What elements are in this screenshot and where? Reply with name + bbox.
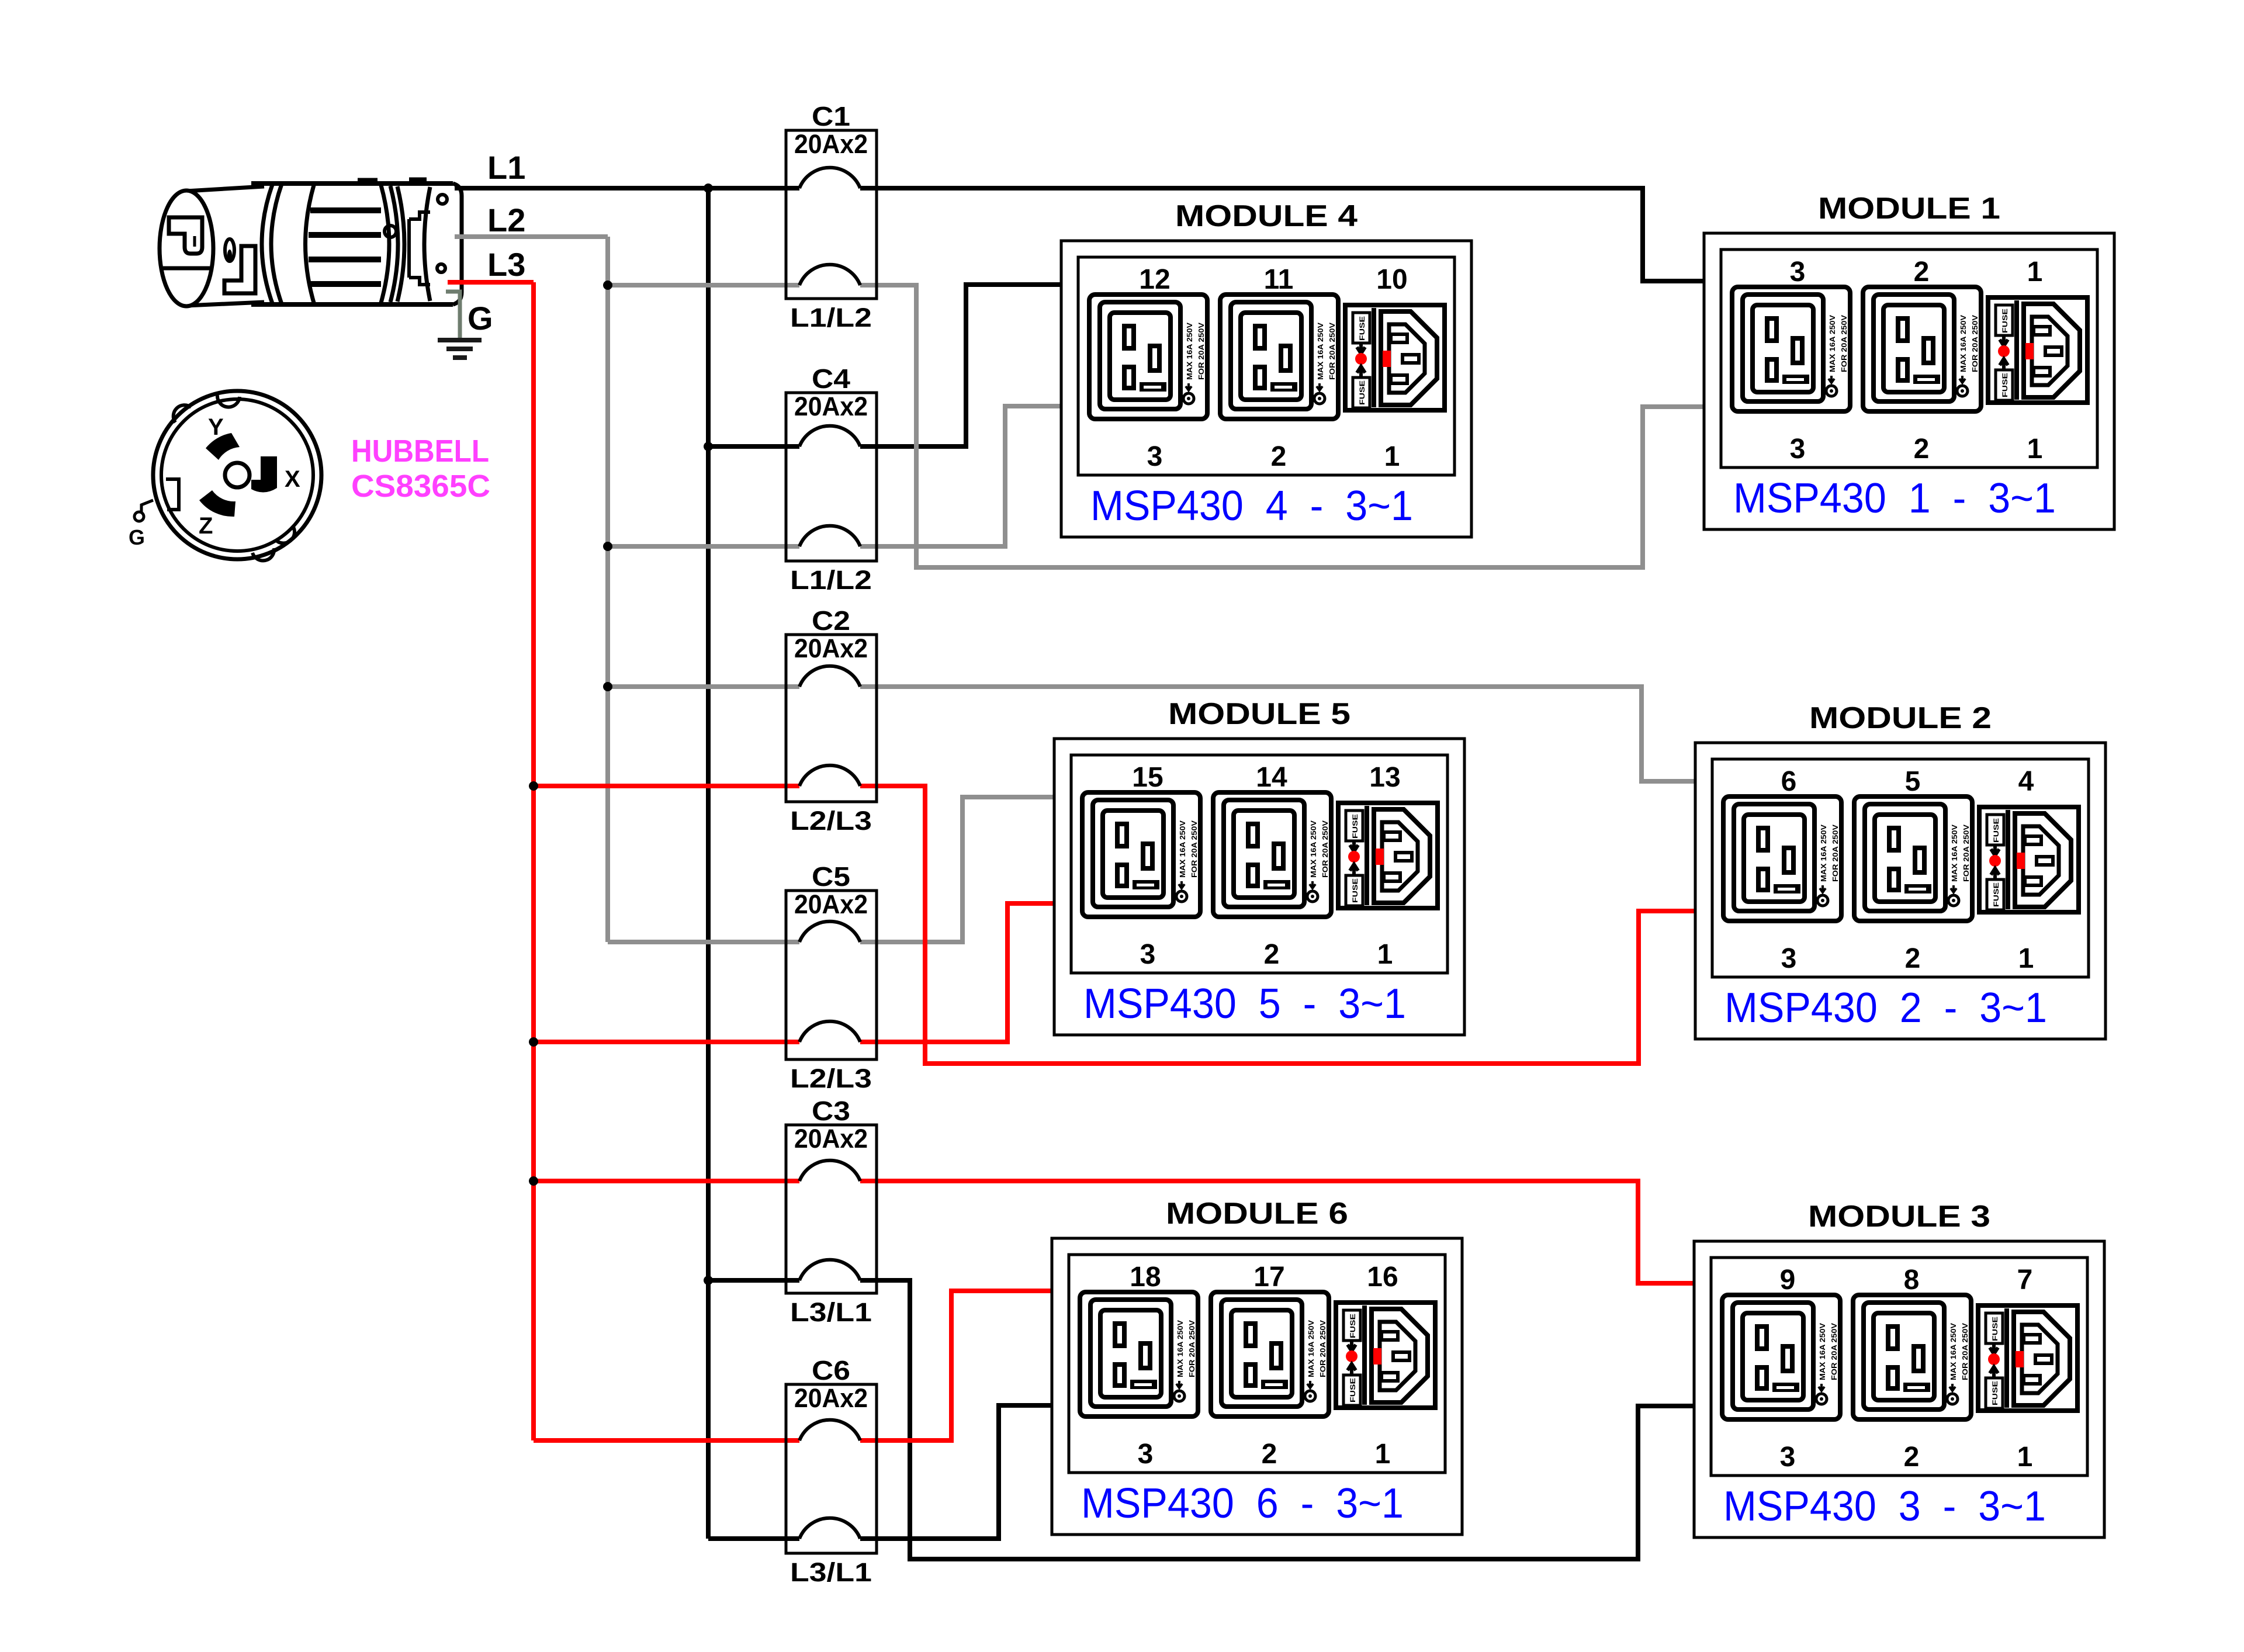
wire L3 bus tap to breaker C5	[534, 1040, 799, 1044]
svg-text:3: 3	[1138, 1439, 1154, 1470]
wire breaker C5 output to MODULE 5 (L3)	[860, 903, 1054, 1042]
svg-text:C4: C4	[812, 363, 850, 394]
wire breaker C4 output to MODULE 4	[860, 285, 1061, 446]
module MODULE 2 enclosure with outlets 6/5 (C19) and inlet 4 (C14+fuse)	[1695, 743, 2106, 1039]
module MODULE 3 enclosure with outlets 9/8 (C19) and inlet 7 (C14+fuse)	[1694, 1241, 2104, 1537]
svg-text:MODULE 4: MODULE 4	[1175, 199, 1358, 233]
svg-text:12: 12	[1139, 264, 1170, 295]
breaker C5 body	[786, 891, 877, 1059]
svg-text:L3/L1: L3/L1	[790, 1557, 872, 1587]
wire L3 bus tap to breaker C3	[534, 1179, 799, 1183]
svg-text:7: 7	[2017, 1265, 2033, 1296]
breaker C2 (2-pole 20A, L2/L3)	[786, 605, 877, 836]
junction L3/C5	[529, 1037, 538, 1047]
breaker C4 pole 1 arc	[799, 426, 860, 446]
breaker C1 body	[786, 130, 877, 299]
junction L2/C4	[603, 542, 612, 551]
module MODULE 2 (MSP430 2 outlet bank)	[1695, 701, 2106, 1039]
svg-text:MSP430 4 - 3~1: MSP430 4 - 3~1	[1090, 483, 1413, 529]
module MODULE 6 (MSP430 6 outlet bank)	[1052, 1197, 1462, 1535]
svg-text:16: 16	[1367, 1262, 1398, 1293]
breaker C6 pole 2 arc	[799, 1518, 860, 1539]
svg-text:3: 3	[1790, 257, 1806, 288]
connector J1: face view (NEMA blades)	[134, 391, 321, 560]
svg-text:C2: C2	[812, 605, 850, 636]
module MODULE 1 enclosure with outlets 3/2 (C19) and inlet 1 (C14+fuse)	[1704, 233, 2114, 529]
svg-text:1: 1	[2027, 434, 2043, 465]
svg-text:20Ax2: 20Ax2	[794, 1124, 868, 1154]
svg-text:1: 1	[2018, 943, 2034, 974]
svg-text:L2/L3: L2/L3	[790, 1064, 872, 1093]
breaker C6 body	[786, 1384, 877, 1553]
svg-text:3: 3	[1147, 441, 1163, 472]
breaker C2 pole 2 arc	[799, 766, 860, 786]
breaker C2 body	[786, 635, 877, 802]
svg-text:L1: L1	[487, 149, 525, 186]
breaker C4 pole 2 arc	[799, 526, 860, 546]
junction L1/C1	[704, 183, 713, 193]
svg-text:CS8365C: CS8365C	[351, 469, 490, 504]
svg-text:MSP430 5 - 3~1: MSP430 5 - 3~1	[1083, 981, 1406, 1027]
breaker C3 body	[786, 1125, 877, 1293]
wire L1 from plug to breaker C1	[455, 186, 799, 191]
svg-text:MSP430 1 - 3~1: MSP430 1 - 3~1	[1733, 475, 2056, 522]
svg-text:20Ax2: 20Ax2	[794, 633, 868, 663]
svg-text:G: G	[467, 300, 493, 337]
svg-text:1: 1	[1377, 939, 1393, 970]
svg-text:L3: L3	[487, 246, 525, 283]
breaker C5 pole 1 arc	[799, 922, 860, 942]
svg-text:MODULE 5: MODULE 5	[1168, 697, 1350, 731]
wire breaker C6 output to MODULE 6	[860, 1405, 1052, 1539]
ground symbol	[438, 340, 482, 358]
wire L2 bus tap to breaker C5	[608, 940, 799, 944]
wire L3 bus tap to breaker C2	[534, 784, 799, 788]
svg-text:1: 1	[2027, 257, 2043, 288]
svg-text:10: 10	[1376, 264, 1407, 295]
svg-text:11: 11	[1264, 264, 1294, 295]
wire L2 from plug to bus	[455, 234, 608, 239]
wire breaker C1 output to MODULE 1	[860, 188, 1704, 281]
wire L1 bus tap to breaker C3	[708, 1278, 799, 1283]
wire L3 bus tap to breaker C6	[534, 1438, 799, 1443]
module MODULE 1 (MSP430 1 outlet bank)	[1704, 192, 2114, 529]
svg-text:Z: Z	[199, 513, 213, 539]
svg-text:1: 1	[1384, 441, 1400, 472]
junction L2/C2	[603, 682, 612, 691]
svg-text:L1/L2: L1/L2	[790, 303, 872, 333]
svg-text:9: 9	[1780, 1265, 1796, 1296]
junction L3/C3	[529, 1176, 538, 1186]
connector J1: Hubbell CS8365C plug, side view	[160, 180, 462, 306]
label HUBBELL CS8365C	[351, 434, 490, 504]
breaker C4 (2-pole 20A, L1/L2)	[786, 363, 877, 595]
wire L3 bus (vertical)	[531, 282, 536, 1440]
wire L3 from plug to bus	[448, 280, 534, 285]
svg-text:8: 8	[1904, 1265, 1920, 1296]
svg-text:HUBBELL: HUBBELL	[351, 434, 489, 469]
wire breaker C2 output to MODULE 2 (L2)	[860, 687, 1695, 781]
module MODULE 4 (MSP430 4 outlet bank)	[1061, 199, 1471, 537]
svg-text:1: 1	[2017, 1442, 2033, 1473]
breaker C3 pole 2 arc	[799, 1260, 860, 1280]
wire L1 bus tap to breaker C6	[708, 1536, 799, 1541]
breaker C6 pole 1 arc	[799, 1420, 860, 1440]
breaker C1 pole 2 arc	[799, 265, 860, 285]
svg-text:MODULE 1: MODULE 1	[1818, 192, 2000, 226]
wire breaker C3 output to MODULE 3	[860, 1280, 1694, 1559]
svg-text:3: 3	[1780, 1442, 1796, 1473]
svg-text:C6: C6	[812, 1355, 850, 1386]
svg-text:2: 2	[1904, 1442, 1920, 1473]
breaker C5 pole 2 arc	[799, 1021, 860, 1042]
module MODULE 5 (MSP430 5 outlet bank)	[1054, 697, 1464, 1035]
svg-text:13: 13	[1369, 762, 1400, 793]
svg-text:18: 18	[1130, 1262, 1161, 1293]
svg-text:2: 2	[1262, 1439, 1277, 1470]
svg-text:MODULE 2: MODULE 2	[1809, 701, 1992, 735]
svg-text:3: 3	[1790, 434, 1806, 465]
svg-text:2: 2	[1271, 441, 1287, 472]
svg-text:L1/L2: L1/L2	[790, 565, 872, 595]
module MODULE 3 (MSP430 3 outlet bank)	[1694, 1200, 2104, 1537]
svg-text:MSP430 6 - 3~1: MSP430 6 - 3~1	[1081, 1480, 1404, 1527]
svg-text:2: 2	[1264, 939, 1280, 970]
svg-text:MSP430 2 - 3~1: MSP430 2 - 3~1	[1724, 985, 2047, 1031]
wire breaker C3 output to MODULE 3 (L3)	[860, 1181, 1694, 1283]
svg-text:L3/L1: L3/L1	[790, 1297, 872, 1327]
svg-text:4: 4	[2018, 766, 2034, 797]
breaker C4 body	[786, 393, 877, 561]
wire breaker C1 output to MODULE 1 (L2)	[860, 285, 1704, 567]
svg-text:MODULE 6: MODULE 6	[1166, 1197, 1348, 1231]
wire breaker C6 output to MODULE 6 (L3)	[860, 1291, 1052, 1440]
svg-text:2: 2	[1914, 434, 1930, 465]
wire L2 bus tap to breaker C2	[608, 684, 799, 689]
svg-text:20Ax2: 20Ax2	[794, 1383, 868, 1413]
svg-text:17: 17	[1253, 1262, 1284, 1293]
svg-text:X: X	[285, 466, 300, 492]
svg-text:MODULE 3: MODULE 3	[1808, 1200, 1990, 1234]
module MODULE 6 enclosure with outlets 18/17 (C19) and inlet 16 (C14+fuse)	[1052, 1238, 1462, 1535]
module MODULE 5 enclosure with outlets 15/14 (C19) and inlet 13 (C14+fuse)	[1054, 739, 1464, 1035]
junction L3/C2	[529, 781, 538, 791]
svg-text:Y: Y	[208, 414, 224, 440]
junction L1/C3	[704, 1276, 713, 1285]
wire breaker C4 output to MODULE 4 (L2)	[860, 406, 1061, 546]
module MODULE 4 enclosure with outlets 12/11 (C19) and inlet 10 (C14+fuse)	[1061, 241, 1471, 537]
svg-text:20Ax2: 20Ax2	[794, 392, 868, 421]
wire L2 bus (vertical)	[605, 237, 610, 942]
wire G from plug to ground	[446, 292, 460, 339]
breaker C3 pole 1 arc	[799, 1161, 860, 1181]
svg-text:G: G	[129, 525, 145, 549]
svg-text:6: 6	[1781, 766, 1797, 797]
breaker C2 pole 1 arc	[799, 666, 860, 687]
breaker C1 (2-pole 20A, L1/L2)	[786, 101, 877, 333]
svg-text:C5: C5	[812, 861, 850, 892]
svg-text:20Ax2: 20Ax2	[794, 129, 868, 159]
wire L1 bus (vertical)	[706, 188, 711, 1539]
svg-text:20Ax2: 20Ax2	[794, 889, 868, 919]
wire L2 bus tap to breaker C4	[608, 544, 799, 549]
svg-text:MSP430 3 - 3~1: MSP430 3 - 3~1	[1723, 1483, 2046, 1530]
svg-text:L2: L2	[487, 202, 525, 238]
svg-text:2: 2	[1914, 257, 1930, 288]
svg-text:1: 1	[1375, 1439, 1391, 1470]
wire L2 bus tap to breaker C1	[608, 283, 799, 288]
svg-text:3: 3	[1140, 939, 1156, 970]
svg-text:C1: C1	[812, 101, 850, 131]
svg-text:5: 5	[1905, 766, 1921, 797]
wire L1 bus tap to breaker C4	[708, 444, 799, 449]
svg-text:14: 14	[1256, 762, 1287, 793]
junction L1/C4	[704, 442, 713, 451]
breaker C6 (2-pole 20A, L3/L1)	[786, 1355, 877, 1587]
wire breaker C5 output to MODULE 5 (L2)	[860, 797, 1054, 942]
svg-text:3: 3	[1781, 943, 1797, 974]
breaker C1 pole 1 arc	[799, 168, 860, 188]
svg-text:2: 2	[1905, 943, 1921, 974]
wire breaker C2 output to MODULE 2 (L3)	[860, 786, 1695, 1064]
breaker C5 (2-pole 20A, L2/L3)	[786, 861, 877, 1093]
svg-text:L2/L3: L2/L3	[790, 806, 872, 836]
breaker C3 (2-pole 20A, L3/L1)	[786, 1096, 877, 1327]
junction L2/C1	[603, 280, 612, 290]
svg-text:15: 15	[1132, 762, 1163, 793]
svg-text:C3: C3	[812, 1096, 850, 1126]
